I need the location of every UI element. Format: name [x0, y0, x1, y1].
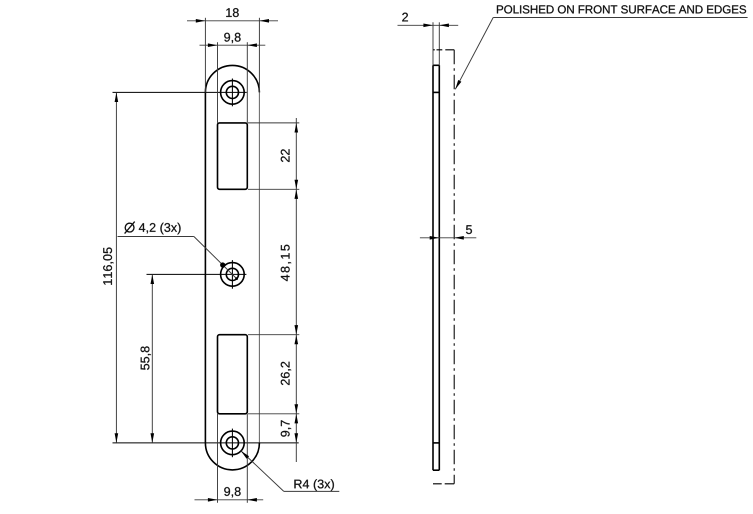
note leader line [455, 18, 747, 90]
dimension 9,7 text [281, 420, 291, 436]
dimension 9,8 bottom arrows [208, 498, 257, 502]
hole callout leader Ø4,2 [118, 237, 239, 281]
dimension 9,8 top line [200, 44, 266, 46]
top hole countersink circle [221, 81, 245, 105]
polish boundary phantom line top segment [433, 49, 454, 51]
right chain arrows [295, 123, 299, 443]
right chain dimension line [295, 118, 297, 462]
bottom hole vertical centerline [231, 429, 233, 458]
bottom hole inner circle [226, 437, 238, 449]
dimension 2 arrows [423, 24, 449, 28]
dimension 55,8 arrows [151, 274, 155, 443]
middle hole inner circle [226, 268, 238, 280]
radius callout leader R4 [241, 451, 339, 492]
dimension 5 line [420, 237, 476, 239]
dimension 26,2 text [281, 362, 291, 385]
note text [497, 5, 746, 13]
dimension 116,05 arrows [115, 92, 119, 443]
side view right edge [438, 65, 440, 470]
plate outline front view [205, 65, 259, 470]
dimension 48,15 text [281, 245, 291, 281]
dimension 2 extension lines [433, 22, 439, 65]
dimension 116,05 text [103, 247, 113, 284]
top hole vertical centerline [231, 79, 233, 107]
dimension 5 arrows [430, 236, 464, 240]
dimension 9,8 top arrows [208, 43, 257, 47]
dimension 9,8 bottom line [195, 499, 264, 501]
top latch cutout [218, 123, 248, 189]
dimension 9,8 top extension lines [218, 42, 248, 123]
dimension 22 text [281, 149, 290, 162]
side view left edge [432, 65, 434, 470]
middle hole horizontal centerline / extension [147, 273, 247, 275]
dimension 18 arrows [196, 19, 269, 23]
side view bottom edge [433, 469, 439, 471]
dimension 55,8 text [141, 346, 151, 369]
side view top tangent line [433, 91, 439, 93]
dimension 9,8 top text [224, 33, 240, 43]
polish boundary phantom line vertical [453, 50, 455, 484]
side view top edge [433, 64, 439, 66]
dimension 18 text [226, 8, 238, 17]
top hole horizontal centerline / extension [113, 91, 247, 93]
dimension 116,05 line [115, 92, 117, 443]
dimension 5 text [466, 225, 472, 234]
middle hole countersink circle [221, 263, 245, 287]
dimension 2 text [402, 13, 408, 22]
dimension 9,8 bottom text [224, 487, 240, 497]
bottom hole countersink circle [221, 431, 245, 455]
bottom hole horizontal centerline / extension [113, 442, 299, 444]
polish boundary phantom line bottom segment [433, 483, 454, 485]
dimension 55,8 line [151, 274, 153, 443]
top hole inner circle [226, 86, 238, 98]
side view bottom tangent line [433, 442, 439, 444]
right chain extension lines [248, 123, 299, 414]
radius callout text R4 (3x) [294, 479, 333, 491]
dimension 18 extension lines [205, 18, 259, 93]
dimension 9,8 bottom extension lines [218, 414, 248, 503]
dimension 18 line [187, 20, 278, 22]
hole callout text Ø4,2 (3x) [125, 223, 134, 232]
bottom latch cutout [218, 335, 248, 414]
dimension 2 line [398, 24, 459, 26]
middle hole vertical centerline [231, 260, 233, 289]
